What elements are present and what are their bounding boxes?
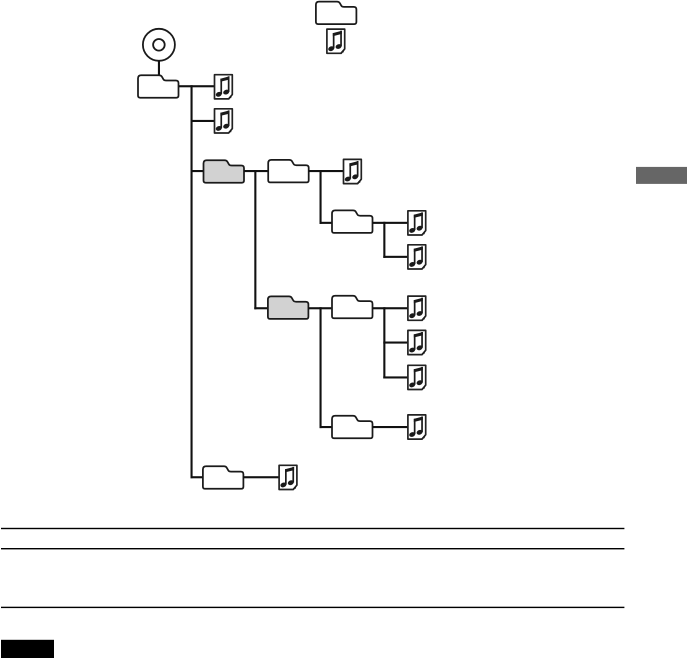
rule 1	[1, 528, 624, 529]
wire branch D to file7	[383, 342, 407, 344]
music file 3	[344, 159, 362, 183]
wire branch D to file8	[383, 376, 407, 378]
wire root row	[179, 85, 214, 87]
wire branch B horizontal	[320, 222, 333, 224]
wire gray1 to white2	[244, 170, 268, 172]
gray folder 2	[268, 296, 309, 319]
legend folder	[316, 2, 357, 25]
wire branch C vertical	[383, 222, 385, 258]
wire disc to root folder	[158, 61, 160, 75]
white folder 4	[332, 416, 373, 439]
wire trunk to folder5	[191, 476, 204, 478]
wire trunk vertical	[191, 85, 193, 478]
disc icon	[143, 29, 175, 61]
music file 4	[408, 211, 426, 235]
music file 8	[408, 365, 426, 389]
music file 7	[408, 330, 426, 354]
music file 1	[215, 75, 233, 99]
white folder 3	[332, 296, 373, 319]
wire folder5 to file10	[243, 476, 278, 478]
music file 6	[408, 296, 426, 320]
music file 2	[215, 109, 233, 133]
wire gray2 to white3	[308, 307, 331, 309]
bottom folder 5	[203, 466, 244, 489]
wire branch B vertical	[320, 170, 322, 224]
music file 9	[408, 415, 426, 439]
side tab	[636, 167, 687, 184]
music file 5	[408, 245, 426, 269]
wire branch A vertical	[254, 170, 256, 309]
wire branchA to gray2	[254, 307, 267, 309]
music file 10	[279, 465, 297, 489]
rule 2	[1, 548, 624, 549]
wire white3 to file6	[373, 307, 408, 309]
legend music file	[327, 29, 345, 53]
rule 3	[1, 607, 624, 608]
wire branch C horizontal	[383, 256, 407, 258]
wire branch D vertical	[383, 307, 385, 378]
wire branch E vertical	[320, 307, 322, 428]
root folder	[138, 75, 179, 98]
white folder 2	[268, 160, 309, 183]
subfolder	[332, 210, 373, 233]
wire row 2	[191, 120, 215, 122]
wire white2 to file3	[309, 170, 344, 172]
wire subfolder to file4	[373, 222, 408, 224]
gray folder 1	[204, 160, 245, 183]
note label box	[1, 640, 54, 658]
wire white4 to file9	[373, 426, 408, 428]
wire branch E horizontal	[320, 426, 333, 428]
wire row 3 left	[191, 170, 204, 172]
